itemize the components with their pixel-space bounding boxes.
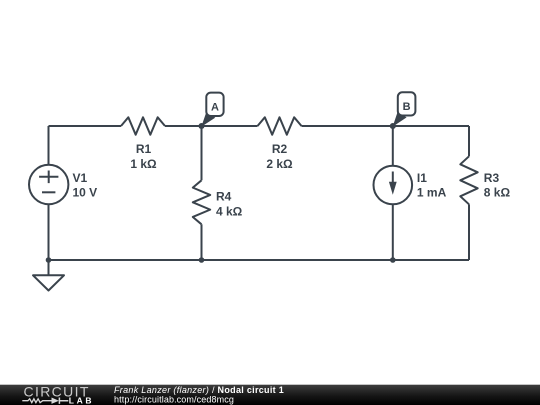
svg-text:R3: R3 <box>484 171 500 185</box>
junction ground dot <box>46 257 52 263</box>
svg-text:R2: R2 <box>272 142 288 156</box>
junction node B dot <box>390 123 396 129</box>
wire left vertical bottom <box>48 204 50 260</box>
svg-text:R1: R1 <box>136 142 152 156</box>
CircuitLab logo text CIRCUIT <box>24 383 90 399</box>
footer credit line 2 <box>114 394 234 404</box>
voltage source V1 <box>29 165 97 204</box>
svg-text:1 mA: 1 mA <box>417 186 447 200</box>
wire node B branch bottom <box>392 204 394 260</box>
footer credit line 1 <box>114 385 284 395</box>
svg-text:2 kΩ: 2 kΩ <box>266 157 293 171</box>
wire bottom horizontal <box>49 259 470 261</box>
wire from R1 through node A to R2 <box>165 125 258 127</box>
svg-text:B: B <box>403 101 411 113</box>
junction R4-bottom dot <box>199 257 205 263</box>
node A flag <box>201 93 223 127</box>
wire from R2 through node B to right corner <box>302 125 470 127</box>
CircuitLab logo text LAB <box>69 396 95 405</box>
svg-text:LAB: LAB <box>69 396 95 405</box>
resistor R4 <box>193 180 243 224</box>
svg-text:8 kΩ: 8 kΩ <box>484 186 511 200</box>
wire node B branch top <box>392 126 394 166</box>
svg-text:10 V: 10 V <box>73 186 98 200</box>
wire right vertical top <box>468 126 470 156</box>
ground <box>33 260 64 291</box>
CircuitLab logo symbol (resistor and diode) <box>22 398 68 404</box>
junction I1-bottom dot <box>390 257 396 263</box>
wire left vertical top <box>48 126 50 165</box>
node B flag <box>393 92 416 127</box>
svg-text:1 kΩ: 1 kΩ <box>130 157 157 171</box>
resistor R3 <box>460 156 510 204</box>
resistor R2 <box>258 117 302 171</box>
svg-text:http://circuitlab.com/ced8mcg: http://circuitlab.com/ced8mcg <box>114 394 234 404</box>
wire top-left horizontal from V1 to R1 <box>49 125 122 127</box>
junction node A dot <box>199 123 205 129</box>
resistor R1 <box>121 117 165 171</box>
current source I1 <box>374 166 447 205</box>
footer bar <box>0 385 540 405</box>
svg-text:A: A <box>211 102 219 114</box>
svg-text:R4: R4 <box>216 190 232 204</box>
svg-text:V1: V1 <box>73 171 88 185</box>
wire node A branch bottom <box>201 224 203 260</box>
svg-text:I1: I1 <box>417 171 427 185</box>
svg-text:4 kΩ: 4 kΩ <box>216 205 243 219</box>
wire right vertical bottom <box>468 204 470 260</box>
wire node A branch top <box>201 126 203 180</box>
